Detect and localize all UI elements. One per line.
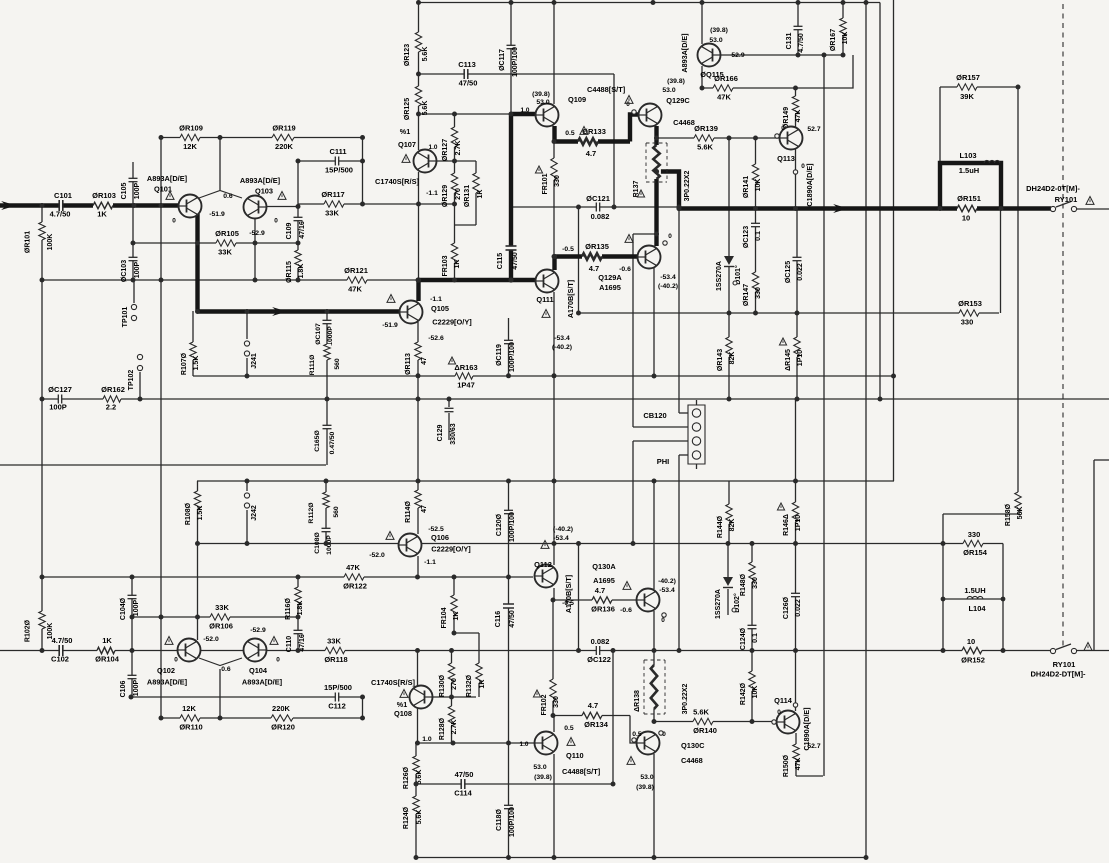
svg-text:5.6K: 5.6K [697, 143, 713, 152]
resistor R119 220K [272, 133, 294, 142]
svg-text:R107Ø: R107Ø [181, 352, 188, 375]
svg-text:TP101: TP101 [122, 307, 129, 328]
wire thick driver vertical x=511 [509, 114, 513, 280]
wire bottom relay to edge x=1094 [1093, 460, 1095, 651]
diode D101 1SS270A [724, 256, 734, 265]
svg-text:%1: %1 [400, 127, 410, 136]
resistor R117 33K [324, 200, 344, 209]
svg-text:Q129C: Q129C [666, 96, 690, 105]
svg-text:Q109: Q109 [568, 95, 586, 104]
svg-text:4.7/50: 4.7/50 [798, 33, 805, 53]
wire Q115 collector x=702 [701, 3, 703, 45]
capacitor C125 0.022 [793, 257, 802, 260]
capacitor C103 100P [129, 257, 138, 260]
svg-text:%1: %1 [397, 700, 407, 709]
svg-text:33K: 33K [215, 603, 229, 612]
svg-text:560: 560 [334, 358, 341, 370]
svg-text:0.5: 0.5 [564, 725, 574, 732]
wire TP102 stub x=140 [139, 372, 141, 399]
connector CB120/PHI [688, 405, 705, 464]
svg-text:0.1: 0.1 [752, 633, 759, 643]
fusible resistor FR101 330 [550, 158, 559, 180]
svg-text:C111: C111 [329, 147, 346, 156]
transistor Q114 C1890A [777, 711, 800, 734]
svg-text:ØR147: ØR147 [743, 284, 750, 306]
resistor R113 47 [414, 342, 423, 360]
wire Q110 collector x=554 [553, 754, 555, 858]
svg-text:0: 0 [274, 218, 278, 225]
svg-text:0: 0 [781, 125, 785, 132]
wire Q115 emitter line y=55 [720, 54, 843, 56]
svg-text:C118Ø: C118Ø [496, 809, 503, 831]
resistor R130 270 [447, 663, 456, 683]
svg-text:53.0: 53.0 [533, 764, 546, 771]
svg-text:C101: C101 [54, 191, 72, 200]
capacitor C119 100P/100 [504, 340, 513, 343]
resistor R116 1.8K [294, 587, 303, 605]
capacitor C113 47/50 [464, 69, 468, 79]
resistor R158 56K [1014, 492, 1023, 512]
wire thick up to Q129C base x=630 [630, 115, 639, 142]
resistor R167 10K [839, 18, 848, 36]
wire C122-C114 link x=613 [612, 651, 614, 785]
svg-text:5.6K: 5.6K [422, 47, 429, 62]
wire C117 column x=511 [510, 3, 512, 115]
capacitor C112 15P/500 [335, 693, 338, 702]
wire D101 column x=729 [728, 138, 730, 256]
wire Q113 emitter x=795 [795, 149, 797, 209]
capacitor C105 100P [129, 178, 138, 181]
svg-text:-53.4: -53.4 [554, 335, 570, 342]
wire R127/R129/FR103 column x=454 [454, 114, 456, 280]
wire Q103 collector x=255 [254, 219, 256, 280]
transistor Q105 C2229 [400, 301, 423, 324]
svg-text:ØC117: ØC117 [499, 49, 506, 71]
wire Q109 collector to top x=554 [553, 0, 555, 104]
svg-text:ØC121: ØC121 [586, 194, 610, 203]
svg-text:C126Ø: C126Ø [783, 596, 790, 619]
wire Q129C emitter thick x=656 [654, 126, 658, 146]
svg-text:C1740S[R/S]: C1740S[R/S] [371, 678, 415, 687]
svg-text:53.0: 53.0 [662, 87, 675, 94]
svg-text:-0.6: -0.6 [620, 607, 632, 614]
svg-text:47K: 47K [346, 563, 360, 572]
svg-text:47/50: 47/50 [459, 79, 478, 88]
wire R109/R119 bias line y=137 [161, 137, 363, 139]
svg-text:0: 0 [801, 163, 805, 170]
wire C125/R145 column x=797 [796, 209, 798, 400]
svg-text:A893A[D/E]: A893A[D/E] [147, 678, 188, 687]
svg-text:A1695: A1695 [593, 576, 615, 585]
svg-text:FR101: FR101 [542, 173, 549, 194]
capacitor C124 0.1 [748, 625, 757, 628]
transistor Q103 A893A [244, 196, 267, 219]
svg-text:-1.1: -1.1 [426, 190, 438, 197]
capacitor C122 0.082 [596, 646, 599, 655]
svg-text:15P/500: 15P/500 [324, 683, 352, 692]
svg-text:-52.9: -52.9 [250, 627, 266, 634]
svg-text:33K: 33K [218, 248, 232, 257]
wire R141/C123/R147 column x=755 [755, 138, 757, 313]
svg-text:-52.6: -52.6 [428, 335, 444, 342]
svg-text:10: 10 [962, 214, 970, 223]
svg-text:(39.8): (39.8) [532, 91, 550, 98]
svg-text:R116Ø: R116Ø [285, 598, 292, 620]
svg-text:0: 0 [668, 233, 672, 240]
wire PHI to bottom rail x=679 [678, 455, 680, 651]
svg-text:(-40.2): (-40.2) [658, 283, 678, 290]
resistor R152 10 on bottom rail [962, 646, 982, 655]
arrow input left edge [1, 201, 16, 210]
svg-text:4.7: 4.7 [588, 701, 598, 710]
resistor R120 220K [271, 714, 293, 723]
wire R121 line thin part y=280 [42, 279, 418, 281]
svg-text:DH24D2-0T[M]-: DH24D2-0T[M]- [1026, 184, 1080, 193]
wire Q110 emitter stub x=554 [553, 716, 555, 733]
resistor R127 2.7K [450, 127, 459, 147]
capacitor C102 4.7/50 [59, 645, 63, 656]
capacitor C121 0.082 [596, 203, 599, 212]
inductor L103 1.5uH [984, 160, 1000, 163]
svg-text:47: 47 [421, 505, 428, 513]
svg-text:47: 47 [421, 357, 428, 365]
wire R108 column x=197 [197, 481, 199, 640]
svg-text:-51.9: -51.9 [209, 211, 225, 218]
capacitor C109 47/16 [294, 217, 303, 220]
svg-text:ØR104: ØR104 [95, 655, 120, 664]
svg-text:ØR115: ØR115 [286, 261, 293, 283]
wire FR102 column x=553 [552, 600, 554, 716]
svg-text:ØR141: ØR141 [743, 176, 750, 198]
svg-text:1SS270A: 1SS270A [715, 589, 722, 619]
wire R129/R131 junction line y=225 [454, 224, 476, 226]
wire R149 column x=795 [795, 88, 797, 127]
wire FR104 column x=454 [453, 577, 455, 633]
svg-text:PHI: PHI [657, 457, 670, 466]
svg-text:33K: 33K [327, 637, 341, 646]
wire Q130A emitter stub x=654 [653, 611, 655, 651]
svg-text:ØR101: ØR101 [25, 231, 32, 253]
resistor R163 1P47 in rail [455, 372, 473, 381]
junction dots [40, 203, 45, 208]
svg-text:ØR151: ØR151 [957, 194, 981, 203]
svg-text:0: 0 [661, 617, 665, 624]
resistor R104 1K [97, 646, 115, 655]
svg-text:-51.9: -51.9 [382, 322, 398, 329]
wire long bias vertical x=161 [160, 138, 162, 719]
svg-text:1000P: 1000P [327, 326, 334, 346]
wire C114 line y=784 [416, 783, 613, 785]
wire main output thick y=208 [679, 206, 1051, 210]
arrow on output line x=842 [833, 204, 848, 213]
svg-text:C2229[O/Y]: C2229[O/Y] [432, 318, 472, 327]
svg-text:Q114: Q114 [774, 696, 793, 705]
svg-text:(-40.2): (-40.2) [552, 344, 572, 351]
svg-text:C4468: C4468 [673, 118, 695, 127]
svg-text:12K: 12K [182, 704, 196, 713]
wire Q113 base line y=138 [657, 137, 781, 139]
resistor R150 47K [792, 744, 801, 762]
resistor R154 330 [963, 539, 983, 548]
svg-text:82K: 82K [729, 352, 736, 365]
svg-text:100P: 100P [49, 403, 67, 412]
svg-text:3P0.22X2: 3P0.22X2 [684, 171, 691, 202]
svg-text:0: 0 [626, 101, 630, 108]
svg-text:C120Ø: C120Ø [496, 513, 503, 536]
wire C112 line y=697 [131, 696, 362, 698]
resistor R125 5.6K [414, 86, 423, 106]
transistor Q115 A893A [698, 44, 721, 67]
svg-text:A1695: A1695 [599, 283, 621, 292]
svg-text:0.022: 0.022 [795, 599, 802, 617]
svg-text:C109: C109 [286, 223, 293, 240]
resistor R140 5.6K [693, 717, 713, 726]
wire main input thick line y=205 [0, 203, 179, 207]
svg-text:1.5uH: 1.5uH [959, 166, 979, 175]
svg-text:1K: 1K [454, 260, 461, 269]
capacitor C126 0.022 [791, 593, 800, 596]
wire C113 feedback line y=74 [418, 73, 614, 75]
capacitor C104 100P [128, 595, 137, 598]
svg-text:A170B[S/T]: A170B[S/T] [564, 575, 573, 613]
svg-text:ØR143: ØR143 [717, 349, 724, 371]
svg-text:(-40.2): (-40.2) [553, 526, 573, 533]
wire Q130A collector x=654 [653, 481, 655, 589]
capacitor C129 330/63 [445, 408, 454, 411]
resistor R151 10 on output line [957, 204, 977, 213]
wire R116/C110 column x=298 [297, 577, 299, 651]
svg-text:FR104: FR104 [441, 607, 448, 628]
svg-text:0.082: 0.082 [591, 637, 610, 646]
svg-text:-0.5: -0.5 [562, 600, 574, 607]
arrow on thick line x=281 [272, 307, 287, 316]
svg-text:4.7: 4.7 [586, 149, 596, 158]
svg-text:33K: 33K [325, 209, 339, 218]
wire R105 line y=243 [134, 242, 298, 244]
resistor R115 1.8K [294, 250, 303, 268]
resistor R110 12K [180, 714, 200, 723]
resistor R147 330 [751, 272, 760, 292]
transistor Q129A A1695 [638, 246, 661, 269]
wire bottom supply rail y=857 [416, 857, 865, 859]
svg-text:4.7/50: 4.7/50 [50, 210, 71, 219]
resistor R131 1K [472, 173, 481, 193]
wire bottom output rail y=651 right part [679, 650, 1053, 652]
wire C121 output sense line y=207 [512, 206, 679, 208]
wire bias rail y=481 [197, 480, 894, 482]
svg-text:1P10: 1P10 [795, 515, 802, 531]
svg-text:Q110: Q110 [566, 751, 584, 760]
thick junction dots [195, 203, 200, 208]
wire right supply column x=880 [879, 3, 881, 400]
transistor Q108 C1740S [410, 686, 433, 709]
svg-text:FR103: FR103 [442, 255, 449, 276]
wire thick R135 line y=256 [555, 254, 639, 258]
svg-text:270: 270 [455, 188, 462, 200]
resistor R166 47K [713, 84, 733, 93]
wire R126/R124 column x=416 [415, 743, 417, 858]
wire Q111/Q112 collector spine x=554 [553, 292, 555, 565]
fusible resistor FR104 1K [450, 595, 459, 615]
wire thick Q109 base y=114 [511, 112, 536, 116]
wire R117 line y=204 [298, 203, 454, 205]
svg-text:C1890A[D/E]: C1890A[D/E] [805, 163, 814, 206]
svg-text:Q102: Q102 [157, 666, 175, 675]
resistor R162 2.2 [103, 395, 121, 404]
svg-text:ØR162: ØR162 [101, 385, 125, 394]
svg-text:A170B[S/T]: A170B[S/T] [566, 280, 575, 318]
resistor R124 5.6K [412, 796, 421, 814]
svg-text:R148Ø: R148Ø [740, 573, 747, 596]
wire C120 column x=508 [508, 481, 510, 577]
capacitor C110 47/16 [294, 630, 303, 633]
svg-text:1.8K: 1.8K [298, 264, 305, 279]
svg-text:DH24D2-DT[M]-: DH24D2-DT[M]- [1031, 670, 1087, 679]
emitter resistor R138 3P 0.22x2 bold [650, 665, 659, 709]
transistor Q129C C4468 [639, 104, 662, 127]
svg-text:ØC125: ØC125 [785, 261, 792, 283]
wire Q106 collector stub x=418 [417, 556, 419, 577]
svg-text:R146Δ: R146Δ [783, 514, 790, 536]
resistor R134 4.7 [582, 711, 602, 720]
svg-text:3P0.22X2: 3P0.22X2 [682, 684, 689, 715]
wire thick line to Q105 y=311 [198, 309, 401, 313]
svg-text:ØR118: ØR118 [324, 655, 347, 664]
wire thick R133 line y=141 [555, 139, 631, 143]
svg-text:ØR153: ØR153 [958, 299, 982, 308]
svg-text:FR102: FR102 [541, 694, 548, 715]
wire rail y=465 [0, 464, 326, 466]
resistor R101 100K [38, 222, 47, 240]
svg-text:ØR119: ØR119 [272, 124, 295, 133]
svg-text:C165Ø: C165Ø [314, 430, 321, 452]
svg-text:330: 330 [755, 287, 762, 299]
svg-text:Q105: Q105 [431, 304, 449, 313]
svg-text:56K: 56K [1017, 507, 1024, 520]
svg-text:J241: J241 [251, 353, 258, 369]
wire R146/C126/Q114 column x=795 [795, 399, 797, 711]
wire output sense rail y=313 [579, 312, 999, 314]
wire C113-C121 link x=614 [613, 74, 615, 207]
wire ground reference rail y=399 full width [42, 398, 1109, 400]
resistor R102 100K [38, 611, 47, 629]
wire Q105 collector thick x=418 [416, 280, 420, 301]
svg-text:47K: 47K [348, 285, 362, 294]
svg-text:ØR113: ØR113 [405, 353, 412, 375]
capacitor C111 15P/500 [335, 157, 338, 166]
svg-text:Q106: Q106 [431, 533, 449, 542]
svg-text:(39.8): (39.8) [667, 78, 685, 85]
svg-text:330: 330 [752, 577, 759, 589]
svg-text:ØR154: ØR154 [963, 548, 988, 557]
svg-text:-52.5: -52.5 [428, 526, 444, 533]
capacitor C116 47/50 [503, 604, 514, 608]
svg-text:L103: L103 [959, 151, 976, 160]
wire thick through R137 x=656 [654, 174, 658, 246]
wire C112/R120 column x=362 [362, 697, 364, 718]
wire R144 column x=729 [728, 481, 730, 544]
svg-text:10K: 10K [842, 32, 849, 45]
svg-text:Q130A: Q130A [592, 562, 616, 571]
capacitor C115 47/50 on thick line [506, 246, 517, 250]
svg-text:C113: C113 [458, 60, 476, 69]
svg-text:1.8K: 1.8K [297, 601, 304, 616]
svg-text:-1.1: -1.1 [430, 296, 442, 303]
svg-text:100P/100: 100P/100 [509, 807, 516, 837]
wire Q129A emitter x=654 [653, 268, 655, 376]
wire R150 link y=776 [796, 775, 823, 777]
svg-text:560: 560 [333, 506, 340, 518]
wire C105/C103 column x=133 [132, 162, 134, 280]
wire Q108 base line y=697 [432, 696, 476, 698]
capacitor C131 4.7/50 [797, 3, 799, 56]
resistor R109 12K [180, 133, 200, 142]
svg-text:Q113: Q113 [777, 154, 795, 163]
transistor Q109 C4488 [536, 104, 559, 127]
svg-text:4.7/50: 4.7/50 [52, 636, 73, 645]
svg-text:-53.4: -53.4 [553, 535, 569, 542]
wire R157/L103 left leg x=940 [939, 87, 941, 163]
svg-text:R150Ø: R150Ø [783, 754, 790, 777]
svg-text:R144Ø: R144Ø [717, 515, 724, 538]
wire Q109 emitter thick x=555 [552, 126, 556, 142]
svg-text:CB120: CB120 [643, 411, 666, 420]
svg-text:ØC122: ØC122 [587, 655, 611, 664]
svg-text:Q103: Q103 [255, 187, 273, 196]
wire R136 line y=600 [553, 599, 637, 601]
svg-text:220K: 220K [272, 704, 291, 713]
svg-text:C102: C102 [51, 655, 69, 664]
transistor Q101 A893A [179, 195, 202, 218]
transistor Q112 A170B [535, 565, 558, 588]
resistor R128 2.7K [447, 706, 456, 726]
transistor Q107 C1740S [414, 150, 437, 173]
svg-text:10K: 10K [752, 686, 759, 699]
fusible resistor FR103 1K [450, 243, 459, 263]
svg-text:ØR120: ØR120 [271, 723, 295, 732]
transistor Q113 C1890A [780, 127, 803, 150]
svg-text:ØR122: ØR122 [343, 582, 367, 591]
svg-text:0.6: 0.6 [223, 193, 233, 200]
svg-text:4.7: 4.7 [589, 264, 599, 273]
svg-text:2.7K: 2.7K [455, 141, 462, 156]
wire R131 column x=476 [475, 161, 477, 225]
svg-text:100P: 100P [133, 680, 140, 697]
svg-text:47/50: 47/50 [512, 252, 519, 270]
svg-text:A893A[D/E]: A893A[D/E] [240, 176, 281, 185]
svg-text:ΔR145: ΔR145 [785, 349, 792, 371]
svg-text:ØR110: ØR110 [179, 723, 202, 732]
resistor R153 330 [959, 309, 979, 318]
wire Q105 emitter R113 R114 column x=418 [417, 322, 419, 534]
resistor R103 1K [93, 201, 113, 210]
svg-text:C114: C114 [454, 789, 472, 798]
svg-text:1.5K: 1.5K [193, 356, 200, 371]
wire Q110 base line y=743 [415, 742, 536, 744]
capacitor C117 100P/100 [507, 45, 516, 48]
svg-text:-52.0: -52.0 [203, 636, 219, 643]
svg-text:TP102: TP102 [128, 370, 135, 391]
svg-text:Q107: Q107 [398, 140, 416, 149]
svg-text:A893A[D/E]: A893A[D/E] [242, 678, 283, 687]
wire R123/R125/Q107 column x=418 upper [418, 3, 420, 151]
jumper J242 [244, 493, 249, 498]
svg-text:5.6K: 5.6K [693, 708, 709, 717]
resistor R149 47K [791, 96, 800, 114]
resistor R114 47 [414, 490, 423, 508]
svg-text:10: 10 [967, 637, 975, 646]
jumper J241 [244, 341, 249, 346]
